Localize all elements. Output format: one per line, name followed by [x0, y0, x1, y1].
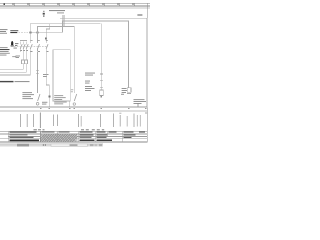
column ticks top band: [4, 3, 135, 6]
wire route left y75: [0, 74, 30, 77]
switch stubs below: [19, 49, 22, 52]
label pole numbers: [15, 40, 48, 46]
terminal numbers on rail: [40, 108, 147, 109]
terminal tick x101.5 y87: [100, 86, 103, 89]
node J4 on x49.3: [48, 96, 50, 98]
rail tick x138: [137, 103, 140, 107]
terminal ticks x37.5: [36, 69, 39, 72]
scrollbar thumb: [17, 144, 29, 147]
bus L3: [30, 22, 101, 25]
coil circle x74.3: [73, 103, 75, 105]
wire W1 dashed tail: [19, 31, 21, 34]
wire drop x46 jog right: [45, 52, 48, 85]
title text dense dark row: [10, 140, 40, 142]
terminal rail: [0, 106, 147, 109]
label cable above (dark dashes): [10, 30, 18, 31]
pole riser x37.5 (from bus N corner): [36, 26, 39, 43]
terminal tick x101.5 y74: [100, 73, 103, 76]
device box K1 (large rectangle): [53, 50, 70, 101]
fuse F1: [22, 60, 25, 64]
wire cross row W1: [29, 31, 63, 34]
wire drop x101.5: [100, 23, 103, 90]
label cable text under routes: [0, 81, 30, 82]
label pole bottom numbers: [21, 50, 49, 52]
wire drop x128.5: [127, 21, 130, 88]
terminal rail lower line: [0, 110, 147, 113]
label block inside K1 bottom: [54, 95, 65, 100]
wire riser pair: [61, 15, 64, 21]
bus L1: [60, 17, 147, 20]
label pin marks right of K1: [71, 89, 73, 92]
coil circle x37.5: [36, 103, 39, 106]
label below K1: [54, 102, 66, 105]
label text block x122 (left of F4): [121, 88, 127, 95]
status inset field: [51, 144, 88, 146]
label rail left: [42, 102, 47, 105]
fuse F4 box on x128.5 with cross: [127, 88, 131, 93]
hatched area signature: [40, 131, 78, 142]
label text left of Q2: [22, 92, 34, 99]
bus L2: [62, 20, 129, 23]
wire drop x74.3: [73, 26, 76, 93]
frame right border: [146, 3, 149, 142]
label left dashes y30: [0, 28, 8, 31]
wire fuse exits: [22, 64, 25, 69]
wire T from bus L3 down to pole x46: [48, 23, 51, 29]
switch stubs above: [19, 42, 22, 45]
node J3: [45, 37, 47, 39]
bus N: [37, 25, 74, 28]
status dots: [43, 144, 44, 146]
wire drop x37.5 long: [36, 52, 39, 93]
linkage dashed: [14, 46, 48, 48]
node J2: [37, 31, 39, 33]
pole riser x30.2 (from bus L3 corner): [29, 23, 32, 43]
tiny texts above title block (column letters): [34, 129, 105, 130]
switch Q1 contacts (diagonals): [20, 44, 48, 49]
wire drop x146.5: [146, 18, 149, 108]
title block verticals: [7, 131, 10, 142]
breaker Q2 contact x37.5: [38, 94, 40, 101]
pole riser x46: [45, 29, 48, 43]
label rail right: [134, 99, 147, 104]
node J1: [29, 31, 31, 33]
vertical wire-number texts above title block: [20, 113, 148, 129]
PE symbol (filled): [11, 41, 13, 45]
title text right section: [124, 132, 146, 138]
label PEN top (symbol+text): [43, 10, 65, 17]
wire stub K1 bottom right to rail: [69, 101, 72, 107]
terminal tick x101.5 y81: [100, 79, 103, 82]
status buttons: [90, 144, 93, 146]
fuse F2: [25, 60, 28, 64]
label text block x85 (for wire x101.5): [85, 73, 95, 91]
label fuse: [16, 54, 21, 57]
wire route left y69.2: [0, 68, 23, 71]
frame top line 2: [0, 5, 150, 8]
bottom status bar track: [0, 144, 103, 147]
breaker Q3 contact x74.3: [74, 94, 76, 101]
fuse F3 box on x101.5: [100, 90, 104, 95]
title block top line: [0, 130, 148, 133]
frame top line 3 (faint): [0, 7, 150, 10]
wire drop to fuse x22.9: [22, 54, 25, 60]
title block row lines: [0, 133, 148, 136]
label text block left x0 y47: [0, 47, 10, 55]
title text mid section: [80, 132, 117, 141]
node under F3: [101, 96, 103, 98]
title text left section: [10, 132, 37, 138]
frame top line 1: [0, 2, 150, 5]
label terminal x45: [43, 73, 49, 76]
wire route left y72.2: [0, 71, 26, 74]
